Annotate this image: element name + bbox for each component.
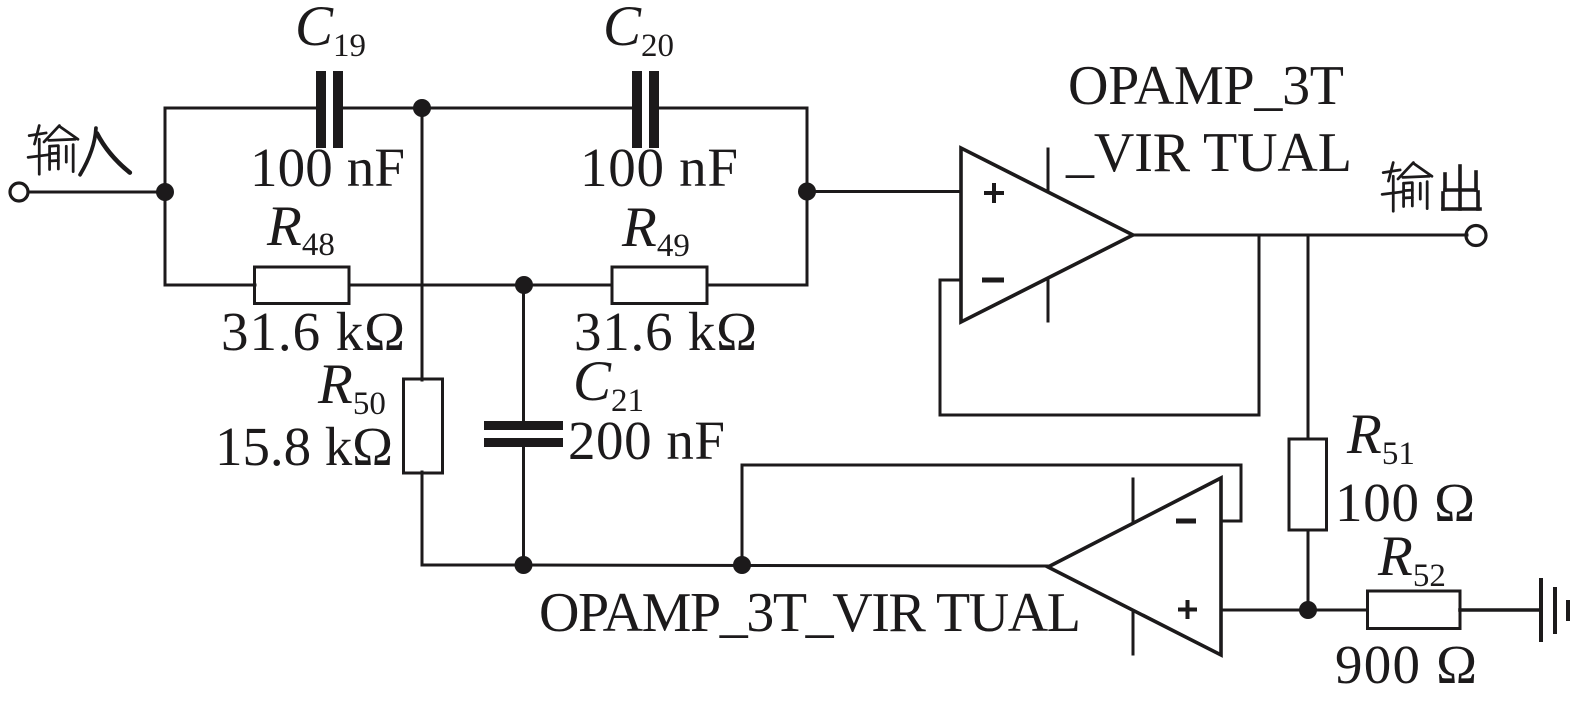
wire right vertical bbox=[806, 108, 809, 285]
ground bbox=[1539, 580, 1543, 640]
capacitor C21 plates bbox=[484, 421, 563, 430]
wire left vertical bbox=[164, 108, 167, 285]
output terminal bbox=[1466, 226, 1486, 246]
wire input to node A bbox=[28, 191, 165, 194]
入 glyph bbox=[80, 128, 130, 175]
wire output down to R51 bbox=[1307, 235, 1310, 439]
node G junction bbox=[1299, 601, 1317, 619]
svg-text:_VIR TUAL: _VIR TUAL bbox=[1065, 122, 1352, 184]
wire R51 to node G bbox=[1307, 530, 1310, 610]
resistor R50 bbox=[404, 379, 443, 473]
input terminal bbox=[10, 183, 28, 201]
wire node B down to R50 bbox=[421, 108, 424, 380]
wire R52 to ground bbox=[1460, 608, 1541, 612]
svg-text:OPAMP_3T_VIR TUAL: OPAMP_3T_VIR TUAL bbox=[539, 582, 1081, 644]
wire node G to R52 bbox=[1308, 609, 1365, 612]
wire C19 to node B bbox=[343, 107, 422, 110]
op-amp U2 bottom tick bbox=[1132, 611, 1135, 654]
capacitor C20 plates bbox=[632, 71, 642, 148]
node D junction bbox=[515, 276, 533, 294]
wire R50 to bottom rail bbox=[422, 472, 523, 565]
svg-text:OPAMP_3T: OPAMP_3T bbox=[1068, 55, 1344, 117]
wire U2 + input to node G bbox=[1221, 609, 1308, 612]
node F junction bbox=[733, 556, 751, 574]
wire bottom row left bbox=[165, 284, 255, 287]
wire U1 output bbox=[1133, 234, 1467, 237]
node A junction bbox=[156, 183, 174, 201]
op-amp U1 bottom tick bbox=[1047, 280, 1050, 321]
resistor R51 bbox=[1289, 439, 1327, 530]
op-amp U1 triangle bbox=[961, 148, 1133, 322]
wire bottom rail bbox=[524, 565, 1049, 566]
op-amp U2 triangle bbox=[1048, 478, 1221, 655]
wire C21 to bottom rail bbox=[522, 447, 525, 565]
svg-text:900 Ω: 900 Ω bbox=[1335, 634, 1477, 695]
wire R49 to right vertical bbox=[707, 284, 807, 287]
resistor R49 bbox=[612, 267, 707, 304]
resistor R52 bbox=[1368, 591, 1461, 629]
op-amp U1 top tick bbox=[1047, 149, 1050, 191]
wire node D down to C21 bbox=[522, 285, 525, 421]
node C junction bbox=[798, 183, 816, 201]
node E junction bbox=[515, 556, 533, 574]
svg-text:100 nF: 100 nF bbox=[580, 137, 738, 198]
svg-text:15.8 kΩ: 15.8 kΩ bbox=[215, 416, 393, 477]
wire node B to C20 bbox=[422, 107, 633, 110]
node B junction bbox=[413, 99, 431, 117]
输入 label (input) bbox=[28, 126, 78, 175]
op-amp U2 plus sign bbox=[1178, 608, 1197, 612]
op-amp U2 minus sign bbox=[1176, 519, 1196, 524]
op-amp U2 top tick bbox=[1132, 479, 1135, 521]
输出 label (output) bbox=[1382, 163, 1432, 212]
resistor R48 bbox=[255, 267, 350, 304]
svg-text:31.6 kΩ: 31.6 kΩ bbox=[221, 301, 405, 362]
wire U2 feedback bbox=[742, 465, 1241, 565]
svg-text:100 Ω: 100 Ω bbox=[1335, 472, 1475, 533]
wire R48 to node D bbox=[349, 284, 612, 287]
op-amp U1 plus sign bbox=[984, 191, 1004, 195]
op-amp U1 minus sign bbox=[982, 278, 1004, 283]
capacitor C19 plates bbox=[316, 71, 326, 148]
wire C20 to right corner bbox=[659, 107, 807, 110]
wire U1 feedback bbox=[940, 235, 1259, 415]
wire node C to op-amp U1 + input bbox=[807, 190, 961, 193]
svg-text:100 nF: 100 nF bbox=[250, 137, 405, 198]
svg-text:200 nF: 200 nF bbox=[568, 410, 725, 471]
wire top to C19 bbox=[165, 107, 317, 110]
